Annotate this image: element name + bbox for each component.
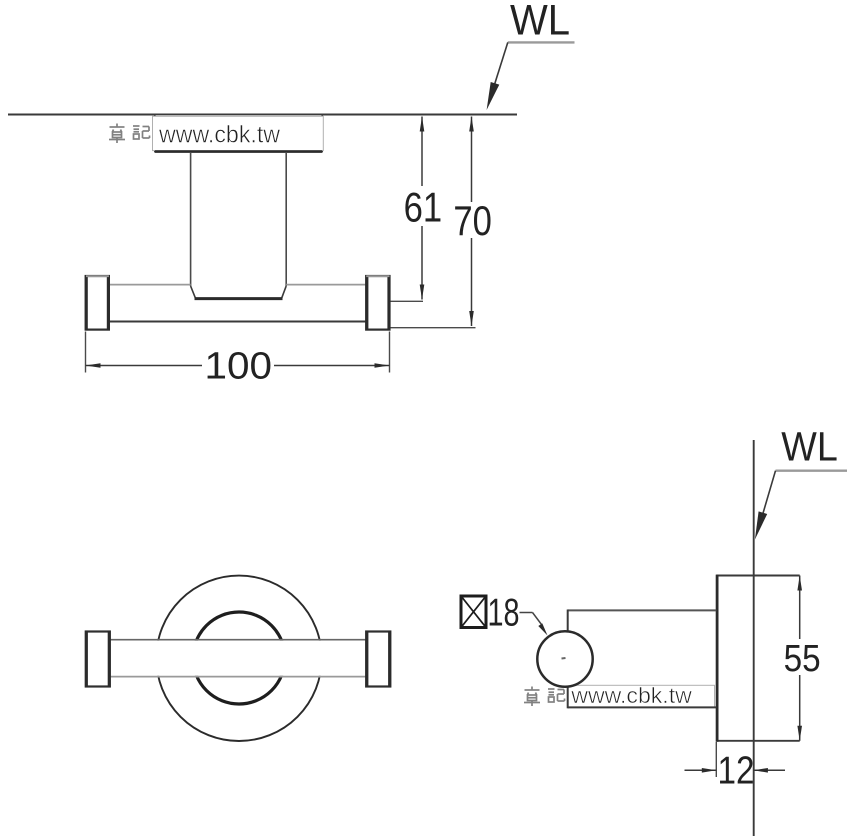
dim 100 left arrowhead	[86, 363, 101, 368]
flange bottom thick edge (front view)	[155, 150, 322, 153]
dim 18 leader horizontal	[520, 612, 533, 614]
svg-text:www.cbk.tw: www.cbk.tw	[570, 683, 692, 708]
dim 55 line upper segment	[799, 576, 801, 640]
left end cap (front view)	[86, 276, 109, 330]
watermark 2 CJK 記	[548, 689, 565, 702]
svg-text:61: 61	[404, 184, 443, 231]
arm top line (side view)	[568, 609, 717, 611]
dim 70 bottom arrowhead	[469, 311, 474, 326]
dim 100 line left segment	[86, 365, 203, 367]
dim 12 left extension line (plate edge extended)	[715, 742, 717, 777]
WL leader underline (side view)	[776, 470, 848, 472]
svg-text:18: 18	[488, 592, 520, 635]
left end cap (plan view)	[86, 632, 110, 687]
right end cap (plan view)	[366, 632, 390, 687]
dim 70 top arrowhead	[469, 117, 474, 132]
svg-text:www.cbk.tw: www.cbk.tw	[158, 122, 280, 149]
right end cap (front view)	[366, 276, 389, 330]
dim 100 left extension line	[85, 332, 87, 373]
dim 18 leader arrowhead	[538, 623, 547, 635]
dim 100 right extension line	[389, 332, 391, 373]
outer circle (flange, plan view)	[156, 576, 321, 741]
WL leader underline (front view)	[508, 41, 575, 43]
dim 55 top arrowhead	[797, 576, 802, 591]
inner circle (post base, plan view)	[193, 612, 285, 704]
svg-text:55: 55	[784, 638, 821, 680]
dim 12 left arrowhead (points right)	[702, 768, 717, 773]
svg-text:12: 12	[718, 749, 755, 792]
post bottom thick edge (hook bottom)	[195, 297, 283, 300]
dim 100 right arrowhead	[375, 363, 390, 368]
dim 61 line upper segment	[421, 117, 423, 187]
bar top edge left segment (front view)	[109, 284, 191, 286]
arm bottom line (side view)	[568, 706, 717, 708]
bar body fill (plan view)	[109, 641, 366, 676]
svg-text:WL: WL	[510, 0, 570, 45]
plate bottom edge (side view, extends to dim line)	[716, 740, 799, 742]
watermark 2 white box	[568, 685, 715, 707]
watermark 1 white box	[153, 116, 324, 150]
dim 70 line upper segment	[471, 117, 473, 203]
arm bottom connector (side view)	[567, 686, 569, 709]
bar bottom edge (front view)	[109, 321, 366, 323]
dim 61 line lower segment	[421, 226, 423, 300]
WL leader arrowhead (side view)	[755, 511, 767, 539]
bar bottom edge (plan view)	[109, 676, 366, 678]
flange plate rectangle (front view)	[155, 115, 322, 152]
bar top edge right segment (front view)	[286, 284, 366, 286]
dim 18 leader diagonal	[533, 613, 542, 625]
dim 70 extension line (horizontal)	[391, 327, 476, 329]
WL leader arrowhead (front view)	[487, 82, 500, 110]
svg-text:100: 100	[205, 346, 273, 388]
wall line (front view)	[8, 114, 517, 116]
WL leader diagonal (side view)	[758, 471, 776, 532]
plate top edge (side view, extends to dim line)	[716, 575, 799, 577]
bar top edge (plan view)	[109, 639, 366, 641]
wall line (side view, vertical)	[753, 440, 755, 836]
dim 12 right arrowhead (points left)	[753, 768, 768, 773]
watermark 2 CJK 章	[524, 687, 540, 707]
watermark 1 CJK 章	[109, 124, 125, 144]
arm top connector (side view)	[567, 610, 569, 633]
dim 12 right tail	[753, 769, 785, 771]
dim 55 bottom arrowhead	[797, 726, 802, 741]
dim 55 line lower segment	[799, 675, 801, 741]
WL leader diagonal (front view)	[489, 42, 508, 102]
knob circle (side view)	[537, 631, 592, 686]
post left edge (front view)	[190, 152, 192, 286]
knob center mark	[562, 657, 566, 660]
post right chamfer	[282, 286, 286, 298]
dim 70 line lower segment	[471, 238, 473, 326]
svg-text:70: 70	[453, 197, 492, 244]
watermark 1 CJK 記	[133, 126, 150, 139]
post right edge (front view)	[285, 152, 287, 286]
dim 12 left tail	[685, 769, 717, 771]
dim 61 bottom arrowhead	[420, 285, 425, 300]
plate front (left) thick edge (side view)	[716, 575, 719, 742]
post left chamfer	[191, 286, 196, 298]
dim 100 line right segment	[274, 365, 390, 367]
dim 61 top arrowhead	[420, 117, 425, 132]
diameter symbol tofu box	[461, 596, 486, 628]
dim 61 extension line (horizontal)	[391, 300, 424, 302]
svg-text:WL: WL	[781, 423, 838, 469]
